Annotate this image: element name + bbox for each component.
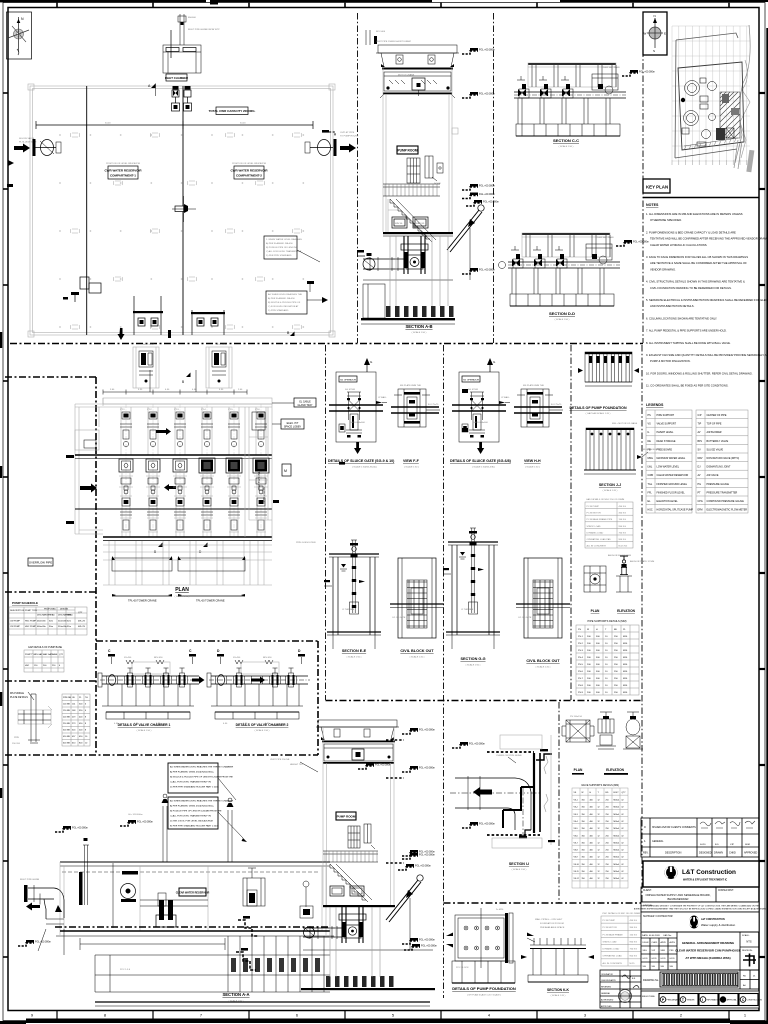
svg-text:400: 400 — [590, 835, 593, 837]
sluice gate room — [245, 404, 272, 540]
svg-text:LEGENDS: LEGENDS — [646, 403, 664, 407]
butterfly valve circle — [363, 258, 375, 270]
svg-text:4W+2S: 4W+2S — [78, 626, 85, 628]
svg-text:04.20: 04.20 — [643, 958, 649, 960]
svg-text:A/L WHEN WATER LEVEL REACHES: A/L WHEN WATER LEVEL REACHES THE THRUST … — [170, 800, 234, 803]
plan top dimension line — [103, 391, 247, 393]
milestone row — [641, 991, 759, 1008]
svg-text:PCC BLOCK: PCC BLOCK — [456, 967, 469, 969]
pump bay 2 (future) — [146, 459, 160, 472]
svg-text:350: 350 — [582, 814, 585, 816]
valve chamber box right edge — [317, 641, 319, 755]
svg-text:( WT PLAN SCALE 1:20 / SCALE: ( WT PLAN SCALE 1:20 / SCALE ) — [467, 994, 501, 997]
svg-text:I: I — [702, 998, 703, 1002]
svg-text:PS-6: PS-6 — [578, 671, 584, 673]
svg-text:RCC-600: RCC-600 — [376, 31, 386, 33]
svg-text:C) ALL FOR LEVEL TRANSMITTER(T: C) ALL FOR LEVEL TRANSMITTER(TYP) — [170, 815, 211, 818]
valve support elevation stand 2 — [627, 712, 639, 718]
svg-text:MAXIMUM WATER LEVEL: MAXIMUM WATER LEVEL — [657, 457, 686, 460]
svg-text:HEAD: HEAD — [67, 614, 73, 617]
clear water reservoir label — [179, 888, 206, 896]
svg-text:750 KG: 750 KG — [619, 532, 627, 534]
pump room label — [336, 812, 356, 820]
svg-text:SECTION G-G: SECTION G-G — [460, 657, 485, 661]
overflow label box — [28, 558, 53, 566]
svg-text:350: 350 — [582, 850, 585, 852]
svg-text:BFV-450: BFV-450 — [154, 657, 163, 659]
svg-text:ELECTROMAGNETIC FLOW METER: ELECTROMAGNETIC FLOW METER — [707, 509, 748, 512]
svg-text:SCALE:: SCALE: — [742, 934, 750, 937]
bottom band top border — [5, 754, 318, 756]
svg-text:350: 350 — [582, 821, 585, 823]
svg-text:MWL: MWL — [648, 457, 654, 460]
svg-text:AV: AV — [698, 474, 701, 477]
inlet chamber — [179, 14, 181, 45]
svg-text:M-25: M-25 — [630, 963, 636, 965]
pump bay 5 (installed) — [226, 458, 242, 473]
forebay channel — [75, 430, 99, 450]
svg-text:FOUNDATION PODIUM: FOUNDATION PODIUM — [540, 922, 564, 925]
dimension line vertical — [86, 125, 88, 210]
left tables box divider y592 — [5, 591, 96, 593]
svg-text:( SCALE 1:50 ): ( SCALE 1:50 ) — [555, 318, 570, 321]
level flag — [462, 92, 495, 98]
level flag — [462, 193, 495, 199]
svg-text:STATIC LOAD: STATIC LOAD — [587, 525, 601, 528]
svg-text:OTHERWISE SPECIFIED.: OTHERWISE SPECIFIED. — [650, 218, 682, 222]
svg-text:DYNAMIC LOAD: DYNAMIC LOAD — [587, 531, 604, 534]
svg-text:PROPOSED: PROPOSED — [44, 609, 56, 611]
svg-text:( SCALE 1:50 ): ( SCALE 1:50 ) — [404, 466, 419, 469]
svg-text:DATE: 04.04.2020: DATE: 04.04.2020 — [642, 934, 661, 937]
svg-text:10. FOR DOORS, WINDOWS & ROLLI: 10. FOR DOORS, WINDOWS & ROLLING SHUTTER… — [646, 371, 753, 375]
reservoir expansion joint marks — [70, 133, 80, 137]
discharge flags left — [357, 250, 364, 253]
operating floor slab — [383, 232, 453, 234]
window — [348, 826, 360, 848]
svg-text:250: 250 — [606, 864, 609, 866]
svg-text:CIVIL BLOCK OUT: CIVIL BLOCK OUT — [526, 659, 560, 663]
svg-text:510m3/hr: 510m3/hr — [58, 620, 67, 623]
step level flags right — [238, 920, 258, 936]
reservoir right outlet pipe — [322, 130, 329, 133]
svg-text:W: W — [644, 32, 647, 36]
layout separator vertical x642 legends column — [641, 345, 643, 903]
svg-text:PLAN: PLAN — [591, 609, 600, 613]
svg-text:NTS: NTS — [746, 940, 751, 944]
svg-text:2x M20: 2x M20 — [496, 909, 504, 911]
svg-text:VT-5: VT-5 — [228, 409, 233, 411]
svg-text:NRV: NRV — [698, 457, 703, 460]
svg-text:APPROVED: APPROVED — [601, 1005, 612, 1008]
svg-text:SKM: SKM — [661, 950, 666, 952]
svg-text:TOTAL CWR CAPACITY 20000KL: TOTAL CWR CAPACITY 20000KL — [209, 109, 256, 113]
svg-text:SG OPERATOR: SG OPERATOR — [340, 378, 356, 381]
tower crane floor — [324, 744, 393, 761]
svg-text:250: 250 — [606, 807, 609, 809]
operating floor — [323, 905, 395, 907]
svg-text:E: E — [664, 32, 666, 36]
scan edge right — [766, 28, 768, 1024]
section D-D gallery — [522, 233, 610, 235]
svg-text:GATE 600x600: GATE 600x600 — [473, 421, 489, 424]
svg-text:350: 350 — [582, 878, 585, 880]
svg-text:OUTLET PIPE: OUTLET PIPE — [340, 132, 355, 134]
details of pump foundation (upper) — [585, 352, 632, 382]
svg-text:PS-4: PS-4 — [578, 657, 584, 659]
level flag — [462, 268, 495, 274]
vent pipe — [228, 810, 232, 862]
svg-text:400: 400 — [590, 850, 593, 852]
svg-text:12: 12 — [598, 857, 600, 859]
svg-text:PUMP SET PLAN: PUMP SET PLAN — [596, 236, 614, 239]
svg-text:( SCALE 1:50 ): ( SCALE 1:50 ) — [412, 331, 427, 334]
scan edge bar bottom — [26, 1019, 730, 1024]
svg-text:DESIGNED: DESIGNED — [699, 852, 712, 855]
svg-text:OVERFLOW PIPE 600NB: OVERFLOW PIPE 600NB — [496, 755, 522, 757]
svg-text:T/P: T/P — [698, 423, 702, 426]
svg-text:AUTHORIZED: AUTHORIZED — [601, 998, 614, 1001]
svg-text:D) PER PIPE STANDARD: D) PER PIPE STANDARD — [266, 254, 292, 257]
svg-text:VALVE SUPPORTS DETAILS (MM): VALVE SUPPORTS DETAILS (MM) — [581, 784, 619, 787]
svg-text:250: 250 — [606, 814, 609, 816]
svg-text:BHUBANESWAR: BHUBANESWAR — [668, 897, 689, 901]
gate dark bar — [79, 872, 83, 905]
svg-text:APPROVAL: APPROVAL — [727, 999, 737, 1002]
svg-text:02: 02 — [622, 800, 624, 802]
tower walls — [382, 67, 384, 232]
svg-text:SSG: SSG — [643, 950, 648, 952]
svg-text:CAD No:: CAD No: — [663, 934, 672, 937]
pump bay 4 (installed) — [199, 458, 215, 473]
section I-I inlet elbow — [386, 740, 404, 863]
svg-text:BORROWERS EXPRESS AGREEMENT TH: BORROWERS EXPRESS AGREEMENT THAT THEY WI… — [634, 908, 767, 911]
svg-text:( SCALE 1:50 ): ( SCALE 1:50 ) — [559, 145, 574, 148]
svg-text:CLEAR WATER HYDRAULIC CALCULAT: CLEAR WATER HYDRAULIC CALCULATIONS. — [650, 243, 708, 247]
svg-text:PC M BASE FRAME: PC M BASE FRAME — [603, 933, 624, 936]
svg-text:CW PUMP: CW PUMP — [10, 621, 21, 623]
svg-text:RCC VENT: RCC VENT — [143, 344, 155, 346]
svg-text:TGL: TGL — [648, 483, 653, 486]
svg-text:SIG: SIG — [661, 966, 665, 968]
svg-text:PKS: PKS — [670, 950, 675, 952]
svg-text:ELEVATION: ELEVATION — [617, 609, 635, 613]
svg-text:SIG: SIG — [652, 966, 656, 968]
clear water reservoir plan outline — [30, 86, 333, 335]
svg-text:INLET PIPE 600NB: INLET PIPE 600NB — [20, 879, 40, 881]
svg-text:C) ALL FOR LEVEL TRANSMITTER: C) ALL FOR LEVEL TRANSMITTER — [266, 250, 302, 253]
svg-text:54.00: 54.00 — [240, 123, 246, 125]
svg-text:PC M PUMP: PC M PUMP — [587, 506, 600, 508]
suction pipe horizontal — [363, 258, 404, 260]
svg-text:CPG: CPG — [698, 500, 703, 503]
svg-text:MSL+ MOTOR LVL BASE: MSL+ MOTOR LVL BASE — [612, 422, 638, 425]
svg-text:SECTION A-A: SECTION A-A — [222, 992, 249, 997]
svg-text:POSITION OF LEVEL INDICATOR: POSITION OF LEVEL INDICATOR — [106, 162, 140, 165]
svg-text:LOW WATER LEVEL: LOW WATER LEVEL — [657, 466, 680, 469]
site boundary road — [675, 33, 738, 158]
svg-text:4. CIVIL STRUCTURAL DETAILS SH: 4. CIVIL STRUCTURAL DETAILS SHOWN IN THI… — [646, 280, 745, 284]
svg-text:350: 350 — [582, 835, 585, 837]
svg-text:VENT PIPE 150NB SHORT DURAT: VENT PIPE 150NB SHORT DURAT — [376, 40, 412, 43]
svg-text:250: 250 — [606, 828, 609, 830]
svg-text:REVIEWED: REVIEWED — [601, 987, 612, 989]
svg-text:350: 350 — [582, 842, 585, 844]
svg-text:DRAWING No.: DRAWING No. — [643, 979, 659, 982]
svg-text:GAP DETAILS OF PUMP BASE: GAP DETAILS OF PUMP BASE — [28, 646, 62, 649]
svg-text:04.20: 04.20 — [700, 844, 706, 846]
svg-text:PUMP ROOM: PUMP ROOM — [337, 815, 356, 819]
svg-text:02: 02 — [622, 814, 624, 816]
svg-text:400: 400 — [590, 864, 593, 866]
puddle plate table — [62, 694, 90, 746]
svg-text:THIS DRAWING AND DESIGN IT COV: THIS DRAWING AND DESIGN IT COVERS ARE TH… — [641, 905, 760, 908]
svg-text:PC M PUMP: PC M PUMP — [603, 920, 616, 922]
svg-text:TENTATIVE AND WILL BE CONFIRME: TENTATIVE AND WILL BE CONFIRMED AFTER RE… — [650, 237, 768, 241]
svg-text:02: 02 — [622, 850, 624, 852]
baffle walls — [140, 900, 208, 906]
svg-text:HSC: HSC — [648, 509, 653, 512]
svg-text:DEAD STORAGE: DEAD STORAGE — [657, 440, 676, 443]
svg-text:450 NB: 450 NB — [63, 736, 70, 738]
svg-text:DESIGN: DESIGN — [60, 609, 68, 611]
legends table right — [696, 410, 748, 513]
svg-text:PS-9: PS-9 — [578, 692, 584, 694]
svg-text:APVD: APVD — [661, 941, 667, 944]
tower walls — [322, 727, 324, 905]
svg-text:PUMP SCHEDULE: PUMP SCHEDULE — [12, 601, 38, 605]
svg-text:( SCALE 1:50(SG-6/8) ): ( SCALE 1:50(SG-6/8) ) — [472, 466, 495, 469]
svg-text:A) PER FLANGED DISML 450(DN200: A) PER FLANGED DISML 450(DN200x900)+ — [170, 805, 215, 808]
roof chamber — [206, 347, 232, 388]
signature / title area — [641, 932, 759, 970]
svg-text:DETAILS OF SLUICE GATE (SG-9 &: DETAILS OF SLUICE GATE (SG-9 & 10) — [328, 459, 395, 463]
svg-text:9. EXHAUST FAN SIZE AND QUANTI: 9. EXHAUST FAN SIZE AND QUANTITY DETAILS… — [646, 353, 768, 357]
svg-text:CI WALL: CI WALL — [378, 396, 387, 399]
svg-text:CWC DETAILS OF MIC 150 OD 20MM: CWC DETAILS OF MIC 150 OD 20MM — [602, 912, 640, 915]
svg-text:( SCALE 1:50 ): ( SCALE 1:50 ) — [175, 595, 190, 598]
staircase — [390, 199, 436, 242]
svg-text:N: N — [654, 14, 656, 18]
svg-text:250: 250 — [606, 821, 609, 823]
svg-text:COMPOUND PRESSURE GAUGE: COMPOUND PRESSURE GAUGE — [707, 500, 745, 503]
svg-text:CWR WATER RESERVOIR: CWR WATER RESERVOIR — [230, 169, 268, 173]
svg-text:SG STEM: SG STEM — [345, 389, 355, 391]
svg-text:HEAD: HEAD — [49, 614, 55, 617]
svg-text:SIG: SIG — [643, 966, 647, 968]
svg-text:12: 12 — [598, 864, 600, 866]
svg-text:B) NOZZLE & PUDDLE PIPE OF: B) NOZZLE & PUDDLE PIPE OF — [268, 302, 301, 304]
svg-text:350: 350 — [582, 857, 585, 859]
svg-text:DESCRIPTION: DESCRIPTION — [665, 852, 682, 855]
svg-text:INFORMATION: INFORMATION — [707, 999, 721, 1002]
svg-text:350: 350 — [582, 800, 585, 802]
layout separator horizontal under top band — [10, 343, 643, 345]
svg-text:L&T Construction: L&T Construction — [682, 869, 736, 876]
footing hatch row — [386, 306, 391, 317]
svg-text:STATIC LOAD: STATIC LOAD — [603, 940, 617, 943]
svg-text:350 KG: 350 KG — [630, 927, 638, 929]
svg-text:M16x4: M16x4 — [614, 878, 620, 880]
svg-text:300 NB: 300 NB — [63, 730, 70, 732]
approvals stamp table — [600, 970, 641, 1008]
svg-text:PUMP TYPE: PUMP TYPE — [25, 610, 38, 612]
svg-text:BFV: BFV — [698, 440, 703, 443]
left tables box top — [5, 376, 96, 378]
svg-text:250: 250 — [606, 857, 609, 859]
svg-text:PIPE GOES DOWN: PIPE GOES DOWN — [296, 542, 316, 544]
svg-text:( SCALE 1:50 ): ( SCALE 1:50 ) — [255, 729, 270, 732]
key plan site map grid — [672, 26, 750, 161]
svg-text:KEY PLAN: KEY PLAN — [646, 185, 668, 190]
left tables box right edge — [95, 377, 97, 755]
svg-text:SECTION J-J: SECTION J-J — [599, 483, 621, 487]
svg-text:WATER & EFFLUENT TREATMENT IC: WATER & EFFLUENT TREATMENT IC — [683, 879, 727, 882]
svg-text:AND INSTRUMENTATION DETAILS.: AND INSTRUMENTATION DETAILS. — [650, 304, 695, 308]
svg-text:DETAILS OF VALVE CHAMBER 1: DETAILS OF VALVE CHAMBER 1 — [118, 723, 171, 727]
svg-text:02: 02 — [622, 871, 624, 873]
svg-text:MOT 5T CRANE: MOT 5T CRANE — [398, 73, 415, 76]
svg-text:OVERFLOW PIPE: OVERFLOW PIPE — [29, 561, 52, 565]
foundation base section — [452, 961, 515, 983]
svg-text:VT-1: VT-1 — [120, 409, 125, 411]
tower base — [303, 949, 433, 951]
top-left small vent pipe — [366, 30, 370, 45]
svg-text:100 NB: 100 NB — [63, 704, 70, 706]
svg-text:GENERAL: GENERAL — [601, 992, 610, 995]
svg-text:( SCALE 1:20 ): ( SCALE 1:20 ) — [536, 666, 551, 669]
svg-text:1. ALL DIMENSIONS ARE IN MM AN: 1. ALL DIMENSIONS ARE IN MM AND ELEVATIO… — [646, 212, 743, 216]
section A-B pump house tower — [378, 45, 457, 53]
pump unit — [404, 236, 425, 274]
svg-text:150 NB: 150 NB — [63, 710, 70, 712]
svg-text:PS-1: PS-1 — [578, 636, 584, 638]
svg-text:TOP OF PIPE: TOP OF PIPE — [707, 423, 722, 426]
layout separator vertical left of key plan column — [642, 13, 644, 343]
svg-text:PS-5: PS-5 — [578, 664, 584, 666]
foundation tie line — [80, 938, 225, 950]
svg-text:( SCALE 1:50 ): ( SCALE 1:50 ) — [137, 729, 152, 732]
svg-text:( SCALE 1:50 ): ( SCALE 1:50 ) — [525, 466, 540, 469]
svg-text:M16x4: M16x4 — [614, 864, 620, 866]
svg-text:AV: AV — [698, 431, 701, 434]
svg-text:CWR: CWR — [648, 474, 654, 477]
pump bays — [121, 407, 131, 455]
svg-text:AIR BLOWER: AIR BLOWER — [707, 431, 722, 434]
svg-text:PIPE NB: PIPE NB — [63, 697, 72, 699]
svg-text:C) ALL FOR LEVEL TRANSMITTER(T: C) ALL FOR LEVEL TRANSMITTER(TYP) — [170, 781, 211, 784]
svg-text:QTY: QTY — [622, 792, 627, 794]
svg-text:DRAWN: DRAWN — [714, 852, 723, 855]
intake pump dark assembly — [159, 900, 164, 920]
svg-text:HSC: HSC — [25, 665, 30, 667]
svg-text:VIEW F-F: VIEW F-F — [403, 459, 420, 463]
svg-text:EFM: EFM — [698, 509, 703, 512]
svg-text:VS-9: VS-9 — [574, 857, 578, 859]
svg-text:VS-1: VS-1 — [574, 800, 578, 802]
svg-text:HORIZONTAL SPLITCASE PUMP: HORIZONTAL SPLITCASE PUMP — [657, 509, 694, 512]
svg-text:6. COLUMN LOCATIONS SHOWN ARE: 6. COLUMN LOCATIONS SHOWN ARE TENTATIVE … — [646, 316, 717, 320]
svg-text:MILESTONE:: MILESTONE: — [642, 996, 656, 998]
valve support plan — [566, 720, 590, 742]
svg-text:( SCALE 1:50 ): ( SCALE 1:50 ) — [466, 664, 481, 667]
svg-text:PC M MOTOR: PC M MOTOR — [587, 513, 602, 515]
svg-text:VENDOR DRAWING.: VENDOR DRAWING. — [650, 267, 676, 271]
svg-text:350: 350 — [582, 828, 585, 830]
section G-G — [470, 528, 476, 542]
left tables box divider y681 — [5, 680, 96, 682]
svg-text:CIVIL BLOCK OUT: CIVIL BLOCK OUT — [400, 649, 434, 653]
svg-text:04.20: 04.20 — [661, 958, 667, 960]
svg-text:SECTION A-B: SECTION A-B — [405, 324, 432, 329]
svg-text:200 NB: 200 NB — [63, 717, 70, 719]
svg-text:C/L OF GATE: C/L OF GATE — [518, 616, 532, 619]
svg-text:PRESSURE GAUGE: PRESSURE GAUGE — [707, 483, 730, 486]
svg-text:SECTION E-E: SECTION E-E — [342, 649, 367, 653]
svg-text:30m: 30m — [49, 621, 53, 623]
key plan bottom border — [643, 197, 759, 199]
svg-text:APPROVED: APPROVED — [744, 852, 758, 855]
svg-text:PLAN: PLAN — [175, 587, 189, 593]
svg-text:PIPE SUPPORTS DETAILS (MM): PIPE SUPPORTS DETAILS (MM) — [588, 619, 627, 623]
svg-text:A/L WHEN WATER LEVEL REACHES: A/L WHEN WATER LEVEL REACHES THE THRUST … — [170, 766, 234, 769]
svg-text:350: 350 — [582, 807, 585, 809]
svg-text:PC M MOTOR: PC M MOTOR — [603, 927, 618, 929]
svg-text:D) PIPE STANDARD: D) PIPE STANDARD — [268, 309, 289, 312]
svg-text:SG STEM: SG STEM — [468, 389, 478, 391]
layout separator horizontal y700 — [326, 700, 643, 702]
svg-text:NON RETURN VALVE (DPTC): NON RETURN VALVE (DPTC) — [707, 457, 740, 460]
lower floor boxes — [330, 886, 344, 896]
suction pipe — [303, 927, 342, 929]
svg-text:VJP: VJP — [730, 844, 735, 846]
channel waterline dash-dot — [55, 926, 330, 928]
svg-text:SWITCH GEAR: SWITCH GEAR — [262, 487, 265, 504]
svg-text:400: 400 — [590, 814, 593, 816]
svg-text:04.20: 04.20 — [670, 958, 676, 960]
svg-text:02: 02 — [622, 864, 624, 866]
svg-text:ELEVATION LEVEL: ELEVATION LEVEL — [657, 500, 679, 503]
pump bay 1 (future) — [119, 459, 133, 472]
svg-text:30m: 30m — [49, 626, 53, 628]
svg-text:DISMANTLING JOINT: DISMANTLING JOINT — [707, 466, 731, 469]
svg-text:QTY: QTY — [59, 654, 64, 656]
elbow steps right — [536, 754, 552, 760]
svg-text:( SCALE 1:50 ): ( SCALE 1:50 ) — [229, 1000, 244, 1003]
svg-text:INLET PIPE 600NB FROM WTP: INLET PIPE 600NB FROM WTP — [188, 29, 220, 31]
svg-text:CONSTRUCTION: CONSTRUCTION — [747, 1000, 763, 1002]
svg-text:400: 400 — [590, 821, 593, 823]
svg-text:S: S — [653, 49, 655, 53]
section E-E — [351, 540, 357, 554]
reservoir centre dividing wall — [182, 86, 184, 335]
svg-text:COMPARTMENT-2: COMPARTMENT-2 — [236, 174, 262, 178]
svg-text:MH-600: MH-600 — [188, 17, 197, 19]
svg-text:REVISION:: REVISION: — [742, 950, 753, 952]
caution band — [641, 902, 759, 912]
pump room label — [397, 146, 418, 154]
svg-text:AT WTP-MEGHA (KHORDA WSS): AT WTP-MEGHA (KHORDA WSS) — [685, 956, 730, 960]
roof chamber — [133, 347, 159, 388]
svg-text:VS-2: VS-2 — [574, 807, 578, 809]
svg-text:M: M — [284, 469, 287, 473]
sluice gate SG-9 and SG-10 detail — [364, 358, 370, 365]
svg-text:RCC VENT: RCC VENT — [216, 344, 228, 346]
svg-text:SV-450: SV-450 — [233, 657, 241, 659]
svg-text:12: 12 — [598, 800, 600, 802]
svg-text:460m3/hr: 460m3/hr — [37, 620, 46, 623]
channel floor — [60, 930, 330, 932]
